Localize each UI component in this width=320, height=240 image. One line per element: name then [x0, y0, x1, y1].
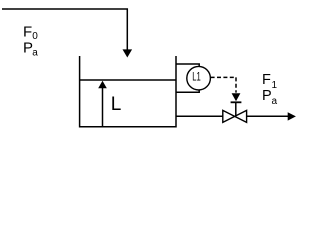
wire: outlet pipe from tank to valve	[176, 115, 223, 117]
feed arrowhead into tank	[123, 49, 133, 57]
outlet arrowhead	[288, 112, 296, 120]
level arrow L (stem)	[102, 88, 104, 127]
svg-text:F: F	[23, 23, 32, 40]
wire: outlet pipe from valve to right	[247, 115, 289, 117]
svg-text:L: L	[111, 94, 122, 115]
valve stem top bar	[231, 101, 242, 103]
valve stem	[235, 102, 237, 116]
liquid level line	[80, 79, 176, 81]
dashed signal line horizontal	[211, 76, 236, 78]
wire: feed pipe (horizontal then down)	[2, 9, 127, 50]
tank (open top vessel)	[80, 56, 176, 127]
control valve body (bowtie) left triangle	[223, 110, 235, 122]
svg-text:1: 1	[272, 80, 278, 91]
level arrowhead	[98, 81, 107, 88]
svg-text:L1: L1	[192, 71, 201, 84]
control valve body (bowtie) right triangle	[235, 110, 247, 122]
dashed signal line vertical	[235, 77, 237, 92]
signal arrowhead onto valve	[232, 93, 241, 101]
svg-text:F: F	[262, 72, 271, 88]
instrument bracket to tank	[176, 64, 199, 92]
svg-text:a: a	[32, 47, 38, 58]
svg-text:0: 0	[32, 31, 38, 42]
svg-text:P: P	[262, 88, 272, 104]
level transmitter circle L1	[187, 66, 211, 90]
svg-text:a: a	[272, 96, 278, 107]
